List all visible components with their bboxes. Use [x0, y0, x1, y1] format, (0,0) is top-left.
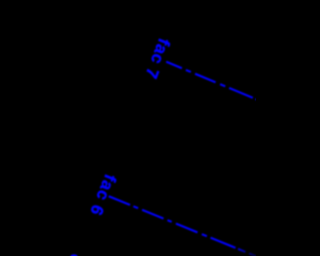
centerline fac 7	[166, 62, 257, 100]
clipped label tip at bottom edge	[70, 254, 78, 256]
centerline fac 6	[109, 196, 257, 256]
